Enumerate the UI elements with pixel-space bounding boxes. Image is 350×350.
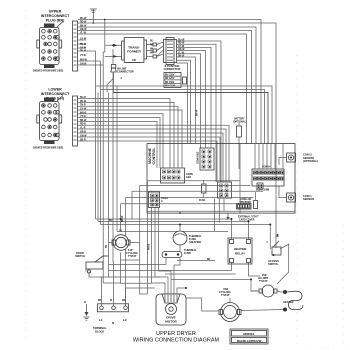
wires bottom right bbox=[171, 279, 259, 311]
wire conn G to motor 1 bbox=[152, 208, 166, 284]
8-position connector body bbox=[164, 38, 181, 72]
svg-text:MODEL: MODEL bbox=[243, 332, 254, 336]
S2 bus wires bbox=[78, 99, 229, 182]
ground symbol top bbox=[90, 9, 97, 24]
svg-text:GY-W: GY-W bbox=[80, 109, 87, 111]
connector P2 pins bbox=[33, 104, 64, 150]
wire 8pos out 4 bbox=[177, 51, 206, 148]
wire lower plug row 5 bbox=[78, 114, 163, 168]
wire transformer secondary 2 bbox=[147, 50, 154, 52]
cycling tstat 140 bbox=[112, 231, 138, 259]
motor wires top bbox=[165, 258, 186, 294]
wire trunk vertical 2 bbox=[97, 93, 99, 222]
cycling tstat use bbox=[219, 287, 241, 322]
wire 8pos in 4 bbox=[157, 54, 164, 57]
coin sensor 1 label bbox=[303, 194, 314, 201]
wire bottom run 4 bbox=[121, 259, 140, 261]
svg-text:YL-W: YL-W bbox=[178, 52, 185, 54]
wire 8pos out 2 bbox=[177, 44, 217, 182]
svg-text:SENSOR: SENSOR bbox=[303, 197, 314, 201]
svg-text:FUSE: FUSE bbox=[199, 200, 206, 202]
wire stubs strip1 mid bbox=[78, 39, 86, 41]
wire 8pos out 7 bbox=[177, 60, 191, 144]
svg-text:BU: BU bbox=[150, 41, 154, 43]
svg-text:VT-W: VT-W bbox=[80, 55, 87, 57]
svg-text:C&D: C&D bbox=[186, 177, 191, 179]
svg-text:OR-W: OR-W bbox=[178, 49, 185, 51]
wire trunk vertical 4 bbox=[108, 93, 110, 278]
battery optional bbox=[233, 118, 247, 170]
svg-text:HEATER: HEATER bbox=[283, 300, 294, 304]
svg-text:MOTOR: MOTOR bbox=[165, 320, 177, 324]
wire 8pos out 6 bbox=[177, 57, 196, 144]
wire terminal 3 bbox=[126, 288, 156, 306]
wire conn G to motor 2 bbox=[155, 208, 168, 278]
S2 bus labels bbox=[80, 97, 87, 141]
wire 8pos out 5 bbox=[177, 54, 201, 148]
svg-text:BK: BK bbox=[98, 300, 102, 302]
svg-text:TN-R: TN-R bbox=[80, 105, 86, 107]
svg-text:CONN: CONN bbox=[161, 198, 168, 200]
wire lower plug row 1 bbox=[78, 99, 170, 168]
vertical stubs below blocks bbox=[215, 199, 224, 232]
board bottom double line bbox=[147, 210, 295, 212]
svg-text:GY-W: GY-W bbox=[178, 46, 185, 48]
wire bottom run 2 bbox=[103, 282, 120, 284]
connector strip S1 bbox=[73, 21, 78, 71]
coin connector block bbox=[252, 144, 284, 192]
svg-text:HEATER: HEATER bbox=[234, 247, 247, 251]
connector P1 upper interconnect plug body bbox=[37, 22, 63, 69]
svg-text:FUSE: FUSE bbox=[184, 251, 191, 255]
wire lower plug row 9 bbox=[78, 129, 226, 182]
wire label bus bbox=[80, 18, 88, 66]
wire to transformer lower bbox=[105, 55, 122, 57]
wire 8pos in 3 bbox=[157, 50, 164, 57]
svg-text:CONN: CONN bbox=[186, 174, 193, 176]
wire relay lead 2 bbox=[248, 222, 250, 240]
wire motor relay link bbox=[177, 260, 215, 262]
svg-text:WH-B: WH-B bbox=[149, 243, 151, 250]
svg-text:TN-W: TN-W bbox=[80, 44, 87, 46]
wire 8pos out 3 bbox=[177, 47, 212, 148]
title text bbox=[133, 331, 220, 344]
access switch wires bbox=[275, 245, 277, 248]
wire heater circuit 2 bbox=[171, 279, 259, 291]
svg-text:WH: WH bbox=[150, 53, 154, 55]
wire 8pos out 1 bbox=[177, 41, 222, 182]
machine control vertical label bbox=[148, 147, 156, 164]
terminal block wires bbox=[98, 262, 155, 306]
svg-text:RD-W: RD-W bbox=[80, 22, 87, 24]
transformer T1 bbox=[122, 38, 147, 63]
svg-text:BK-W: BK-W bbox=[178, 56, 185, 58]
label lower interconnect plug bbox=[41, 88, 70, 101]
bottom bus wires bbox=[89, 253, 160, 284]
svg-text:BATTERY: BATTERY bbox=[234, 118, 245, 121]
rotated wire labels bbox=[106, 109, 280, 250]
horizontal bus under board 0 bbox=[147, 180, 240, 182]
terminal block ground bbox=[84, 300, 90, 320]
svg-text:BR-W: BR-W bbox=[80, 120, 87, 122]
wire trunk vertical 6 bbox=[116, 86, 118, 231]
wire inline down bbox=[113, 72, 115, 93]
page border dotted right bbox=[296, 55, 298, 345]
svg-text:L2: L2 bbox=[123, 318, 127, 322]
svg-text:RD-W: RD-W bbox=[178, 43, 185, 45]
enclosure wire upper bbox=[113, 93, 268, 145]
wire bus A2 bbox=[78, 23, 276, 245]
wire bus A4 bbox=[78, 31, 252, 145]
conn F block bbox=[218, 182, 232, 198]
wire tstat right link bbox=[130, 242, 140, 244]
page border dotted far right bbox=[342, 225, 344, 348]
wire lower plug row 2 bbox=[78, 102, 174, 168]
svg-text:BK: BK bbox=[150, 49, 154, 51]
hi-limit tstat 200 bbox=[251, 273, 277, 297]
connector P2 lower interconnect plug body bbox=[37, 96, 63, 145]
wire motor lead 4 bbox=[174, 258, 180, 294]
svg-text:WH-B: WH-B bbox=[80, 112, 87, 114]
machine control board box bbox=[147, 144, 295, 214]
horizontal bus under board 3 bbox=[125, 197, 253, 199]
svg-text:CONNECTOR: CONNECTOR bbox=[164, 67, 181, 71]
svg-text:BU: BU bbox=[109, 220, 113, 222]
svg-text:RD-B: RD-B bbox=[80, 124, 86, 126]
wire lower plug row 10 bbox=[78, 133, 223, 182]
wire to transformer upper bbox=[105, 44, 122, 46]
wire 8pos in 1 bbox=[157, 42, 164, 45]
wire conn G to motor 3 bbox=[159, 208, 172, 272]
conn D&E block bbox=[198, 148, 215, 170]
wire relay lead 3 bbox=[109, 263, 232, 271]
wire lower plug row 12 bbox=[78, 141, 217, 182]
connector strip S2 bbox=[73, 96, 78, 146]
svg-text:BU 120V: BU 120V bbox=[165, 75, 175, 77]
svg-text:(VIEWED FROM WIRE SIDE): (VIEWED FROM WIRE SIDE) bbox=[33, 148, 64, 150]
svg-text:SWITCH: SWITCH bbox=[75, 254, 85, 258]
svg-text:WIRING CONNECTION DIAGRAM: WIRING CONNECTION DIAGRAM bbox=[133, 338, 220, 344]
door switch bbox=[75, 251, 108, 273]
svg-text:OR-B: OR-B bbox=[80, 132, 86, 134]
svg-text:PK-W: PK-W bbox=[80, 101, 87, 103]
wire bus A5 bbox=[78, 34, 247, 144]
svg-text:SWITCH: SWITCH bbox=[268, 262, 278, 266]
wire lower plug row 7 bbox=[78, 121, 157, 168]
svg-text:GN-W: GN-W bbox=[80, 136, 87, 138]
coin sensor 2 symbol bbox=[287, 153, 296, 162]
wire S1 low rows bbox=[78, 60, 101, 62]
wire enclosure mid bbox=[101, 90, 265, 145]
small component pair below coin conn bbox=[254, 192, 258, 209]
vertical drop x132 bbox=[131, 191, 133, 219]
external stat text bbox=[238, 198, 259, 222]
label upper interconnect plug bbox=[41, 10, 70, 23]
wire mid band bbox=[165, 273, 236, 275]
wire trunk vertical 1 bbox=[95, 51, 97, 219]
conn G block bbox=[149, 192, 169, 208]
wire lower plug row 4 bbox=[78, 110, 182, 168]
wire motor lead 2 bbox=[167, 277, 169, 294]
svg-text:RD: RD bbox=[150, 45, 154, 47]
svg-text:BK 240V: BK 240V bbox=[165, 81, 175, 84]
svg-text:T'STAT: T'STAT bbox=[259, 279, 268, 283]
wire lower plug row 3 bbox=[78, 106, 178, 168]
wire terminal 2 bbox=[112, 262, 115, 306]
svg-text:RD-W: RD-W bbox=[122, 215, 124, 222]
svg-text:TERMINAL: TERMINAL bbox=[93, 326, 107, 330]
wire 8pos in 2 bbox=[157, 46, 164, 51]
vertical drop x125.4 to terminal L2 bbox=[124, 198, 126, 306]
horizontal bus lower 2 bbox=[98, 221, 249, 223]
svg-text:VT-W: VT-W bbox=[80, 116, 87, 118]
svg-text:BLOCK: BLOCK bbox=[95, 330, 104, 334]
svg-text:CONTROL: CONTROL bbox=[152, 148, 156, 165]
in-line connector symbol bbox=[111, 65, 134, 74]
svg-text:(OPTIONAL): (OPTIONAL) bbox=[303, 159, 318, 163]
wire trunk vertical 3 bbox=[100, 61, 102, 225]
wire inline drop bbox=[112, 49, 114, 65]
tiny ground mark center bbox=[226, 214, 229, 220]
wire drop from bus to transformer bbox=[103, 20, 105, 284]
svg-text:1B: 1B bbox=[119, 231, 122, 233]
svg-text:(OPTIONAL): (OPTIONAL) bbox=[233, 121, 247, 124]
thermal fuse bbox=[162, 248, 197, 258]
wire lower plug row 11 bbox=[78, 137, 220, 182]
coin sensor 2 label bbox=[303, 153, 318, 164]
wire lower plug row 6 bbox=[78, 118, 160, 168]
wire strip1 row to trunk bbox=[78, 50, 96, 52]
8-position right wires with corners bbox=[177, 40, 222, 183]
horizontal bus lower 4 bbox=[117, 230, 228, 232]
horizontal bus under board 1 bbox=[140, 185, 250, 187]
conn A&B block bbox=[161, 168, 194, 183]
svg-text:CONNECTOR: CONNECTOR bbox=[117, 70, 134, 74]
svg-text:BU-W: BU-W bbox=[178, 40, 185, 42]
svg-text:FORMER: FORMER bbox=[127, 50, 141, 54]
vertical drop x139.7 bbox=[140, 186, 148, 295]
svg-text:(HEATER): (HEATER) bbox=[189, 240, 201, 244]
access switch bbox=[268, 241, 281, 266]
heater relay wires bbox=[109, 219, 260, 276]
svg-text:G: G bbox=[161, 201, 163, 203]
svg-text:MLE/MLG19PRAZW: MLE/MLG19PRAZW bbox=[237, 339, 262, 343]
wire bus A1 bbox=[78, 20, 261, 145]
terminal block bbox=[93, 304, 129, 334]
wire 8pos out 8 bbox=[177, 63, 188, 144]
drive motor bbox=[156, 294, 186, 325]
vertical drop x147.4 bbox=[146, 181, 148, 294]
svg-text:LB-W: LB-W bbox=[80, 48, 87, 50]
heater wires bbox=[241, 291, 283, 311]
svg-text:L1: L1 bbox=[99, 318, 103, 322]
board divider bbox=[239, 144, 241, 213]
wire relay lead 1 bbox=[231, 219, 233, 240]
svg-text:BU-R: BU-R bbox=[80, 97, 86, 99]
wire tstat left stub bbox=[109, 242, 113, 244]
wire motor lead 5 bbox=[177, 288, 186, 294]
small pin block right bbox=[257, 183, 263, 189]
model box bbox=[230, 329, 268, 344]
svg-text:LOWER: LOWER bbox=[48, 88, 62, 92]
horizontal bus under board 4 bbox=[121, 203, 237, 205]
wire lower plug row 8 bbox=[78, 125, 229, 182]
left trunk verticals bbox=[96, 51, 118, 277]
door switch to fuse wire bbox=[109, 258, 166, 265]
svg-text:UPPER: UPPER bbox=[49, 10, 62, 14]
svg-text:YL-R: YL-R bbox=[80, 128, 86, 130]
wire S1 low rows 2 bbox=[78, 64, 103, 66]
svg-text:UPPER DRYER: UPPER DRYER bbox=[156, 331, 196, 337]
junction dots misc bbox=[120, 212, 272, 289]
svg-text:OR-W: OR-W bbox=[80, 29, 87, 31]
svg-text:YL-W: YL-W bbox=[80, 33, 87, 35]
svg-text:T'STAT: T'STAT bbox=[128, 254, 137, 258]
vertical drop x120.6 to cycling tstat bbox=[120, 204, 122, 232]
svg-text:RD 120V: RD 120V bbox=[165, 78, 175, 80]
wire motor lead 3 bbox=[170, 271, 172, 294]
wire heater circuit 1 bbox=[186, 298, 219, 311]
horizontal bus lower 1 bbox=[96, 218, 232, 220]
svg-text:TN: TN bbox=[106, 245, 108, 248]
wire transformer secondary 1 bbox=[147, 44, 154, 46]
svg-text:EXTERNAL "STAT": EXTERNAL "STAT" bbox=[238, 216, 259, 219]
dip switch block bbox=[237, 204, 252, 210]
svg-text:(VIEWED FROM WIRE SIDE): (VIEWED FROM WIRE SIDE) bbox=[33, 71, 64, 73]
wire motor lead 1 bbox=[164, 283, 166, 294]
svg-text:RD: RD bbox=[122, 300, 126, 302]
svg-text:BU-W: BU-W bbox=[80, 18, 87, 20]
svg-text:BU-W: BU-W bbox=[197, 109, 199, 116]
page border dotted left bbox=[25, 10, 27, 340]
svg-text:BK: BK bbox=[278, 233, 280, 237]
svg-text:BK: BK bbox=[207, 259, 211, 261]
coin sensor 1 symbol bbox=[287, 193, 296, 202]
svg-text:CONN D&E: CONN D&E bbox=[198, 151, 200, 164]
wire relay lead 4 bbox=[249, 263, 261, 277]
connector P1 pins bbox=[33, 29, 64, 72]
svg-text:BK-R: BK-R bbox=[80, 140, 86, 142]
wire bottom run 3 bbox=[121, 253, 152, 284]
enclosure wire lower bbox=[96, 86, 272, 144]
heater relay box bbox=[228, 238, 252, 264]
wire diag to bus bbox=[107, 78, 114, 93]
page border dotted bottom bbox=[310, 346, 350, 348]
svg-text:COND AID: COND AID bbox=[240, 198, 252, 201]
fuse component bbox=[199, 180, 206, 202]
svg-text:CARD COVER: CARD COVER bbox=[239, 219, 255, 222]
svg-text:INTERCONNECT: INTERCONNECT bbox=[41, 14, 70, 18]
8-position left wires bbox=[150, 41, 164, 57]
svg-text:T'STAT: T'STAT bbox=[221, 293, 230, 297]
svg-text:GY-W: GY-W bbox=[80, 39, 87, 41]
horizontal bus under board 2 bbox=[132, 190, 263, 192]
wire transformer secondary 3 bbox=[147, 56, 154, 58]
coin sensor inner wires bbox=[279, 158, 287, 166]
heater element bbox=[283, 290, 303, 312]
transformer secondary stubs bbox=[147, 43, 157, 58]
wire bus A3 bbox=[78, 27, 256, 144]
8-position legend table bbox=[164, 73, 187, 88]
svg-text:BK-W: BK-W bbox=[80, 26, 87, 28]
svg-text:INTERCONNECT: INTERCONNECT bbox=[41, 92, 70, 96]
wire trunk vertical 5 bbox=[112, 72, 114, 262]
svg-text:RELAY: RELAY bbox=[235, 252, 246, 256]
thermal fuse heater bbox=[173, 224, 202, 252]
wire terminal 1 bbox=[102, 277, 104, 306]
wire bottom run 1 bbox=[89, 272, 160, 278]
